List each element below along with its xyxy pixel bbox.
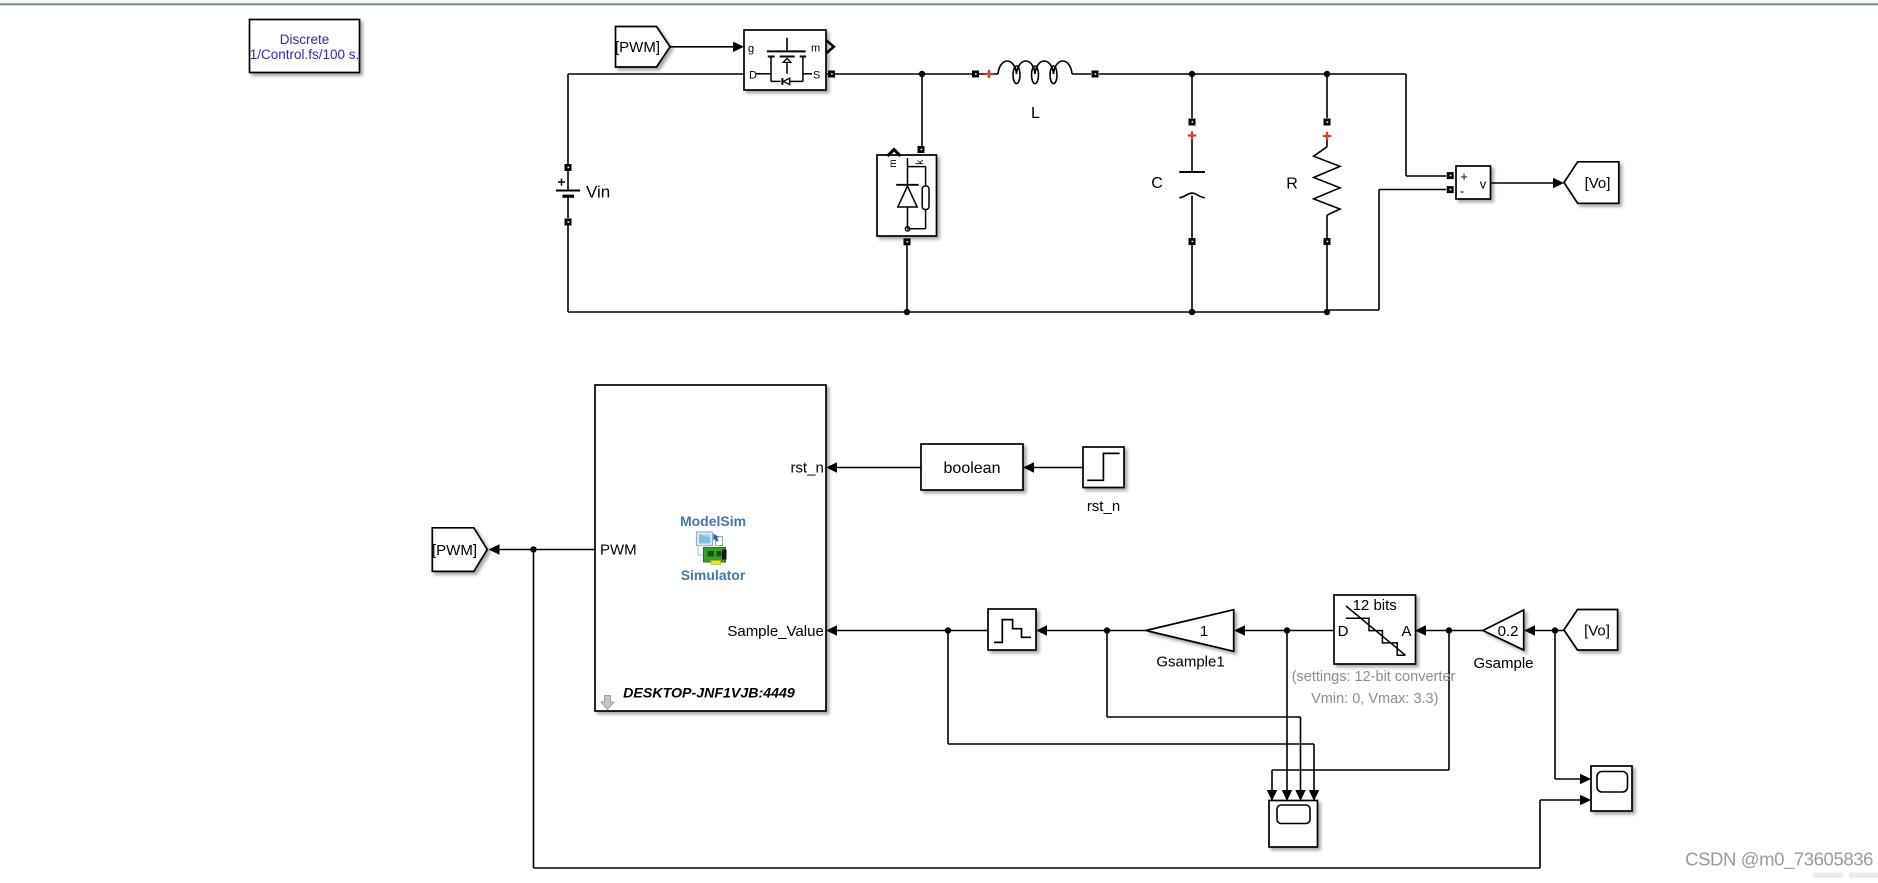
svg-text:Discrete: Discrete: [280, 32, 330, 47]
svg-text:[PWM]: [PWM]: [432, 542, 477, 559]
svg-text:PWM: PWM: [600, 542, 637, 559]
svg-text:g: g: [748, 43, 754, 55]
svg-text:v: v: [1480, 177, 1487, 192]
svg-text:CSDN @m0_73605836: CSDN @m0_73605836: [1685, 849, 1873, 871]
svg-text:D: D: [1338, 623, 1349, 640]
svg-text:A: A: [1401, 623, 1411, 640]
svg-text:0.2: 0.2: [1498, 623, 1519, 640]
svg-text:[PWM]: [PWM]: [615, 39, 660, 56]
svg-text:R: R: [1286, 176, 1298, 193]
svg-text:(settings: 12-bit converter: (settings: 12-bit converter: [1292, 669, 1456, 685]
svg-text:Vmin: 0, Vmax: 3.3): Vmin: 0, Vmax: 3.3): [1311, 691, 1438, 707]
svg-text:Gsample: Gsample: [1473, 655, 1533, 672]
svg-text:m: m: [811, 43, 820, 55]
svg-text:[Vo]: [Vo]: [1585, 175, 1611, 192]
svg-text:D: D: [749, 70, 757, 82]
svg-text:ModelSim: ModelSim: [680, 513, 746, 529]
svg-text:S: S: [813, 70, 820, 82]
svg-text:Simulator: Simulator: [681, 567, 746, 583]
svg-text:-: -: [1460, 184, 1464, 199]
svg-text:12 bits: 12 bits: [1353, 597, 1397, 614]
svg-text:1/Control.fs/100 s.: 1/Control.fs/100 s.: [250, 47, 360, 62]
svg-text:L: L: [1031, 105, 1040, 122]
svg-text:1: 1: [1200, 623, 1208, 640]
svg-text:boolean: boolean: [944, 460, 1001, 477]
svg-text:C: C: [1151, 175, 1163, 192]
svg-text:[Vo]: [Vo]: [1584, 622, 1610, 639]
svg-text:Vin: Vin: [586, 183, 610, 202]
svg-text:Sample_Value: Sample_Value: [727, 623, 823, 640]
svg-text:Gsample1: Gsample1: [1156, 654, 1224, 671]
svg-text:+: +: [1460, 169, 1468, 184]
svg-text:rst_n: rst_n: [790, 460, 823, 477]
svg-text:rst_n: rst_n: [1087, 498, 1120, 515]
svg-text:DESKTOP-JNF1VJB:4449: DESKTOP-JNF1VJB:4449: [623, 686, 795, 702]
svg-text:m: m: [888, 159, 899, 167]
